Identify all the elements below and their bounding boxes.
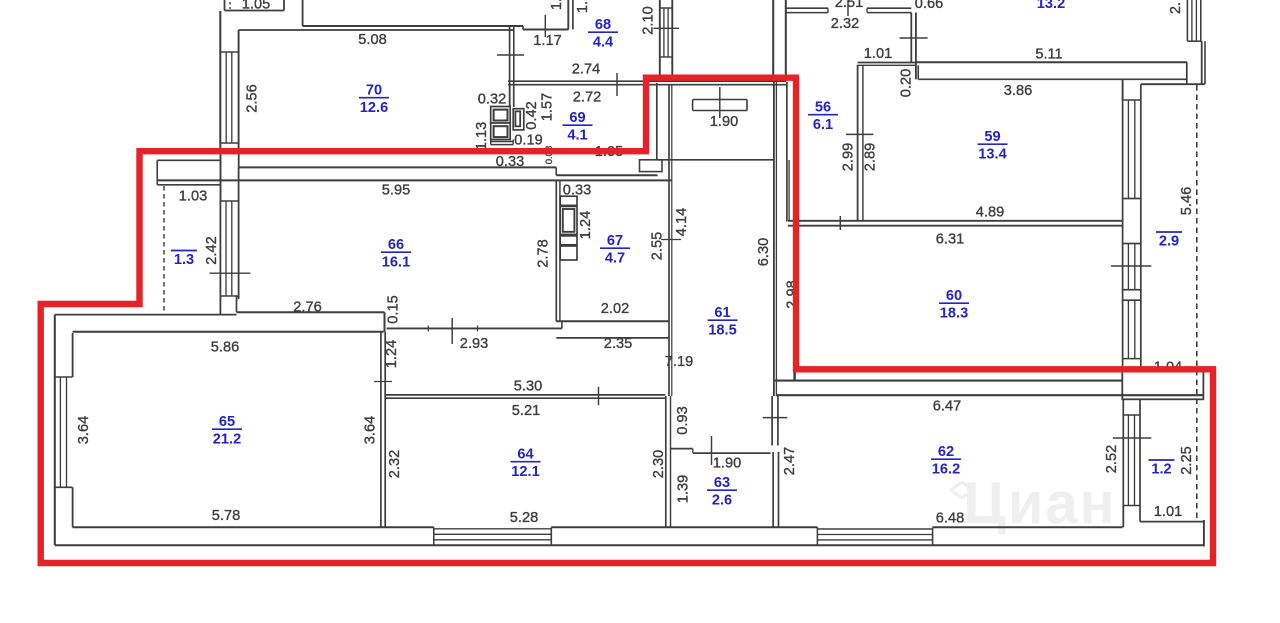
svg-text:70: 70 (366, 83, 382, 99)
svg-text:2.89: 2.89 (863, 143, 879, 171)
svg-text:5.46: 5.46 (1179, 187, 1195, 215)
svg-text:1.: 1. (549, 0, 565, 10)
svg-text:2.32: 2.32 (831, 16, 859, 32)
svg-text:6.48: 6.48 (936, 511, 964, 527)
svg-text:0.33: 0.33 (563, 183, 591, 199)
svg-text:12.6: 12.6 (360, 100, 388, 116)
svg-text:2.74: 2.74 (572, 62, 600, 78)
svg-text:1.17: 1.17 (533, 33, 561, 49)
svg-text:5.78: 5.78 (212, 508, 240, 524)
svg-text:18.5: 18.5 (708, 323, 736, 339)
svg-text:1.90: 1.90 (713, 456, 741, 472)
svg-text:61: 61 (714, 305, 730, 321)
svg-text:2.6: 2.6 (712, 493, 732, 509)
svg-text:62: 62 (938, 444, 954, 460)
svg-text:0.32: 0.32 (478, 92, 506, 108)
svg-text:56: 56 (815, 100, 831, 116)
svg-text:2.35: 2.35 (604, 336, 632, 352)
svg-text:0.66: 0.66 (915, 0, 943, 12)
svg-text:1.: 1. (575, 1, 591, 13)
svg-text:0.20: 0.20 (899, 69, 915, 97)
svg-text:2.02: 2.02 (601, 301, 629, 317)
svg-text:64: 64 (517, 447, 534, 463)
svg-text:4.1: 4.1 (567, 128, 587, 144)
svg-text:59: 59 (984, 129, 1000, 145)
svg-text:6.30: 6.30 (756, 238, 772, 266)
svg-text:1.03: 1.03 (179, 189, 207, 205)
svg-text:2.10: 2.10 (641, 6, 657, 34)
svg-text:1.90: 1.90 (710, 114, 738, 130)
svg-text:2.47: 2.47 (782, 447, 798, 475)
svg-text:6.31: 6.31 (936, 232, 964, 248)
svg-text:2.78: 2.78 (536, 239, 552, 267)
svg-text:3.86: 3.86 (1004, 83, 1032, 99)
svg-text:2.51: 2.51 (835, 0, 863, 11)
svg-text:4.14: 4.14 (674, 208, 690, 236)
svg-text:3.64: 3.64 (76, 416, 92, 444)
svg-text:2.72: 2.72 (573, 90, 601, 106)
svg-text:Циан: Циан (963, 471, 1116, 536)
svg-text:16.1: 16.1 (382, 255, 410, 271)
svg-text:2.42: 2.42 (204, 236, 220, 264)
svg-text:0.93: 0.93 (675, 406, 691, 434)
svg-text:4.4: 4.4 (593, 35, 614, 51)
svg-text:68: 68 (595, 17, 611, 33)
svg-text:5.30: 5.30 (514, 379, 542, 395)
svg-text:0.33: 0.33 (496, 154, 524, 170)
svg-text:6.1: 6.1 (813, 117, 833, 133)
svg-text:0.42: 0.42 (524, 101, 540, 129)
svg-text:16.2: 16.2 (932, 462, 960, 478)
svg-text:5.21: 5.21 (512, 403, 540, 419)
svg-text:12.1: 12.1 (511, 464, 539, 480)
svg-text:1.01: 1.01 (1154, 504, 1182, 520)
svg-text:4.89: 4.89 (976, 205, 1004, 221)
svg-text:1.01: 1.01 (864, 46, 892, 62)
svg-text:4.7: 4.7 (605, 251, 625, 267)
svg-text:5.11: 5.11 (1035, 47, 1062, 63)
svg-text:69: 69 (569, 110, 585, 126)
svg-text:1.57: 1.57 (539, 93, 555, 121)
svg-text:0.15: 0.15 (386, 295, 402, 323)
svg-text:1.3: 1.3 (174, 252, 194, 268)
svg-text:1.39: 1.39 (675, 475, 691, 503)
svg-text:13.2: 13.2 (1037, 0, 1065, 12)
svg-text:1.24: 1.24 (384, 340, 400, 368)
svg-text:2.52: 2.52 (1104, 445, 1120, 473)
svg-text:67: 67 (607, 233, 623, 249)
svg-text:65: 65 (219, 414, 235, 430)
svg-text:1.13: 1.13 (474, 122, 490, 150)
svg-text:66: 66 (388, 237, 404, 253)
svg-text:2.32: 2.32 (387, 450, 403, 478)
svg-text:60: 60 (946, 288, 962, 304)
svg-text:18.3: 18.3 (940, 306, 968, 322)
svg-text:3.64: 3.64 (362, 416, 378, 444)
svg-text:2.30: 2.30 (651, 450, 667, 478)
svg-text:2.25: 2.25 (1179, 446, 1195, 474)
svg-text:5.95: 5.95 (382, 183, 410, 199)
svg-text:0.19: 0.19 (514, 133, 542, 149)
svg-text:2.: 2. (1168, 2, 1184, 14)
svg-text:6.47: 6.47 (933, 399, 961, 415)
svg-text:13.4: 13.4 (978, 147, 1007, 163)
svg-text:2.76: 2.76 (293, 300, 321, 316)
svg-text:1.05: 1.05 (242, 0, 270, 13)
svg-text:1.24: 1.24 (578, 211, 594, 239)
svg-text:5.86: 5.86 (211, 340, 239, 356)
svg-text:5.28: 5.28 (510, 510, 538, 526)
svg-text:2.55: 2.55 (650, 232, 666, 260)
svg-text:2.9: 2.9 (1159, 234, 1179, 250)
svg-text:63: 63 (714, 475, 730, 491)
svg-text:2.56: 2.56 (245, 84, 261, 112)
svg-text:7.19: 7.19 (665, 354, 693, 370)
svg-text:21.2: 21.2 (213, 432, 241, 448)
svg-text:1.2: 1.2 (1151, 462, 1171, 478)
svg-text:5.08: 5.08 (358, 32, 386, 48)
svg-text:2.99: 2.99 (841, 143, 857, 171)
svg-text:2.93: 2.93 (460, 336, 488, 352)
